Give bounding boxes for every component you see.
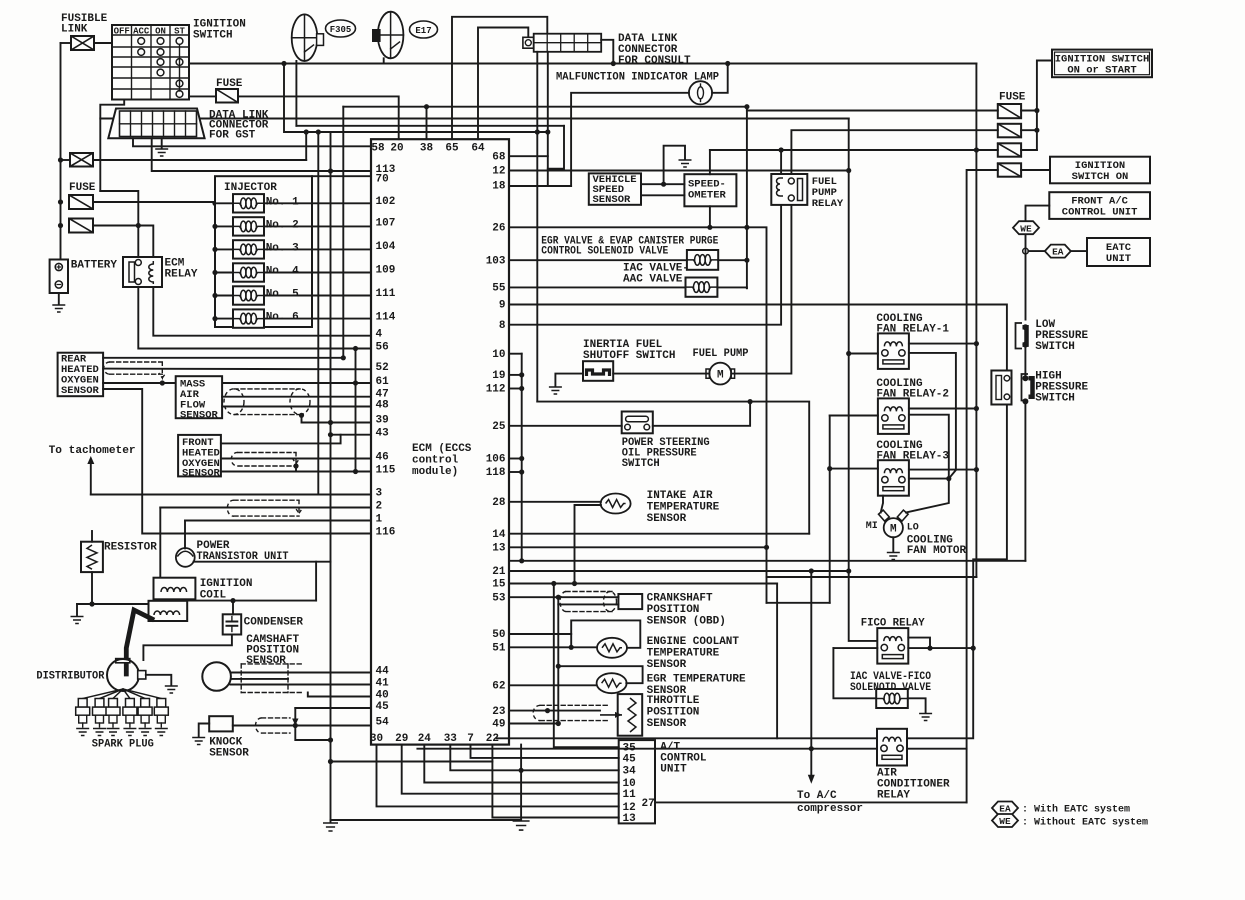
- ECM relay contact bar: [129, 262, 135, 282]
- label FRONT HEATED OXYGEN SENSOR: [182, 437, 221, 480]
- svg-text:No. 5: No. 5: [266, 289, 299, 301]
- ground distributor: [165, 686, 178, 693]
- wire bus x=355.5 vertical: [355, 349, 357, 472]
- front heated oxygen sensor box: [178, 435, 221, 477]
- ECM right pin 55 label: [492, 283, 506, 295]
- node pin50/51 junction: [569, 645, 574, 650]
- data link connector for CONSULT body: [534, 34, 602, 52]
- wire ECM pin 43 line: [331, 434, 372, 436]
- wire speedometer bottom to pin 26 line: [709, 206, 711, 227]
- svg-text:FUSE: FUSE: [999, 92, 1026, 104]
- node pin23 tap: [545, 708, 550, 713]
- svg-text:SENSOR: SENSOR: [647, 513, 687, 525]
- svg-text:39: 39: [376, 414, 389, 426]
- intake air temperature sensor: [601, 494, 631, 514]
- fuel pump relay bar: [798, 179, 803, 201]
- throttle sensor wiper arrow: [600, 712, 622, 718]
- label To tachometer: [49, 445, 136, 457]
- svg-text:RELAY: RELAY: [812, 198, 844, 210]
- node injector rail 6: [212, 316, 217, 321]
- fuel pump relay box: [771, 174, 807, 205]
- ground F305 symbol: [292, 14, 324, 61]
- label IAC VALVE-FICO SOLENOID VALVE: [850, 671, 931, 694]
- wire fuse A left: [747, 110, 998, 112]
- svg-text:RESISTOR: RESISTOR: [104, 542, 157, 554]
- wire rear O2 wire 2 to pin 52: [103, 368, 371, 371]
- MAF shield: [224, 389, 310, 415]
- node pin49 / ground bus: [556, 721, 561, 726]
- svg-text:64: 64: [471, 143, 485, 155]
- wire camshaft sensor middle wire: [232, 678, 288, 680]
- svg-text:SPARK PLUG: SPARK PLUG: [92, 739, 154, 751]
- wire ECM pin 28 to intake air sensor: [509, 501, 601, 503]
- node knock/shield: [293, 723, 298, 728]
- svg-text:ON or START: ON or START: [1067, 65, 1136, 77]
- label IGNITION SWITCH ON: [1072, 160, 1129, 183]
- svg-text:12: 12: [492, 166, 505, 178]
- svg-text:RELAY: RELAY: [165, 269, 198, 281]
- svg-text:10: 10: [492, 349, 505, 361]
- ECM bottom pin 22: [486, 733, 499, 745]
- wire ECM pin 14 line: [509, 533, 809, 535]
- ECM right pin 12 label: [492, 166, 505, 178]
- node intake drop / pin15: [572, 581, 577, 586]
- wire sensor ground bus x=558.3: [557, 604, 559, 723]
- wire fuse B left to fuel pump relay: [791, 130, 997, 174]
- wire y=401.6 line: [537, 402, 809, 534]
- wire fuse1 to injector rail: [93, 201, 215, 203]
- svg-text:ECM (ECCS: ECM (ECCS: [412, 443, 472, 455]
- ECM left pin 54 label: [376, 716, 390, 728]
- wire relay3 left: [830, 468, 878, 470]
- svg-text:13: 13: [492, 543, 506, 555]
- wire ground link y=820: [331, 819, 522, 821]
- label IGNITION COIL: [200, 578, 253, 602]
- svg-text:RELAY: RELAY: [877, 790, 910, 802]
- ECM left pin 44 label: [376, 665, 390, 677]
- wire MAF wire 2 to pin 48: [222, 406, 371, 408]
- wire injector 3 left pin: [215, 248, 233, 250]
- wire ECM pin 49 line: [509, 723, 558, 725]
- injector No. 3: [233, 240, 264, 258]
- wire ECM pin 7 to A/T 45: [471, 745, 619, 758]
- node fuseC / FP relay coil: [779, 147, 784, 152]
- pin2 shield: [227, 500, 302, 516]
- wire inertia switch ground: [555, 374, 583, 386]
- wire relay2 left: [830, 415, 878, 417]
- node pin53 tap: [556, 595, 561, 600]
- label IAC VALVE- AAC VALVE: [623, 263, 689, 286]
- low pressure switch symbol: [1016, 323, 1029, 349]
- ECM left pin 3 label: [376, 487, 383, 499]
- ECM relay box: [123, 257, 162, 287]
- wire ACC line drop at x=284: [284, 64, 332, 133]
- node fuse2 junction: [136, 223, 141, 228]
- wire staircase x=564: [548, 126, 564, 169]
- label DATA LINK CONNECTOR FOR GST: [209, 110, 269, 142]
- label HIGH PRESSURE SWITCH: [1035, 371, 1088, 405]
- wire relay2 coil right: [909, 408, 977, 410]
- ECM bottom pin 24: [418, 733, 432, 745]
- wire high pressure switch left drop: [908, 405, 1007, 739]
- wire y=118.5 bus: [100, 118, 848, 120]
- label FICO RELAY: [861, 618, 925, 630]
- svg-text:1: 1: [376, 513, 383, 525]
- ECM left pin 41 label: [376, 677, 390, 689]
- svg-text:SENSOR: SENSOR: [209, 748, 249, 760]
- power transistor unit: [176, 548, 195, 567]
- wire crankshaft sensor lower wire: [558, 597, 618, 604]
- wire ECM pin 19 line: [509, 374, 522, 376]
- svg-text:FOR CONSULT: FOR CONSULT: [618, 55, 691, 67]
- wire injector 3 to ECM pin 104: [264, 248, 371, 250]
- label ENGINE COOLANT TEMPERATURE SENSOR: [647, 636, 740, 671]
- fusible link FL1: [71, 36, 94, 50]
- wire FICO left line: [833, 647, 877, 649]
- FICO relay: [877, 628, 908, 664]
- label VEHICLE SPEED SENSOR: [593, 174, 637, 206]
- ECM top pin 58: [371, 143, 385, 155]
- svg-text:SENSOR: SENSOR: [180, 410, 219, 422]
- svg-text:45: 45: [623, 753, 637, 765]
- label SPARK PLUG: [92, 739, 154, 751]
- wire VSS ground: [664, 146, 685, 185]
- svg-text:2: 2: [376, 500, 383, 512]
- wire ECM pin 15 line: [509, 583, 777, 585]
- node HP drop / FICO line: [971, 646, 976, 651]
- ECM right pin 51 label: [492, 643, 506, 655]
- ECM right pin 18 label: [492, 181, 506, 193]
- A/T pin 13 label: [623, 813, 637, 825]
- wire E17 drop to ACC line: [383, 58, 385, 63]
- wire rear O2 wire 4: [103, 389, 371, 534]
- svg-text:40: 40: [376, 689, 389, 701]
- A/T pin 27 label: [642, 798, 655, 810]
- resistor box: [81, 542, 103, 572]
- node bus343/rear-O2: [341, 355, 346, 360]
- cooling fan relay-3: [878, 460, 909, 496]
- wire ECM pin 68 line: [509, 155, 548, 157]
- svg-text:52: 52: [376, 362, 389, 374]
- symbol EA (with EATC): [1045, 245, 1071, 258]
- svg-text:48: 48: [376, 399, 390, 411]
- ECM left pin 61 label: [376, 376, 390, 388]
- ECM right pin 50 label: [492, 629, 505, 641]
- svg-text:10: 10: [623, 778, 636, 790]
- wire intake air sensor left drop: [575, 505, 601, 584]
- svg-text:46: 46: [376, 451, 389, 463]
- ignition coil secondary winding: [154, 611, 180, 615]
- ECM left pin 115 label: [376, 464, 396, 476]
- wire fuse D left drop: [967, 170, 998, 802]
- high pressure switch contact: [1022, 374, 1033, 404]
- label CONDENSER: [244, 617, 304, 629]
- fuse left-2: [69, 219, 93, 233]
- wire GST pin to ECM pin 113: [152, 138, 371, 171]
- node pin56 bus junction: [353, 346, 358, 351]
- ground ignition coil: [71, 604, 84, 624]
- wire IAC valve right: [717, 286, 747, 289]
- ECM left pin 111 label: [376, 288, 396, 300]
- svg-text:43: 43: [376, 427, 390, 439]
- wire resistor top stub: [91, 531, 93, 542]
- wire ECM pin 21 line: [509, 570, 849, 572]
- node pin118 / bus: [519, 469, 524, 474]
- wire pin 1 to power transistor: [184, 521, 186, 549]
- svg-text:116: 116: [376, 526, 396, 538]
- svg-text:INJECTOR: INJECTOR: [224, 182, 277, 194]
- wire bus x=306.2 vertical: [305, 132, 307, 160]
- distributor cap: [116, 659, 130, 663]
- svg-text:No. 1: No. 1: [266, 196, 299, 208]
- svg-text:58: 58: [371, 143, 385, 155]
- svg-text:compressor: compressor: [797, 803, 863, 815]
- node left rail / fuse2: [58, 223, 63, 228]
- ECM right pin 68 label: [492, 151, 506, 163]
- wire high tension lead: [126, 610, 152, 674]
- wire front O2 shield drain: [295, 466, 297, 472]
- wire ECM pin 50 line: [509, 634, 571, 647]
- svg-text:CONTROL UNIT: CONTROL UNIT: [1062, 207, 1138, 219]
- label injector No. 5: [266, 289, 299, 301]
- ignition switch header ACC: [133, 27, 150, 37]
- wire ECM pin 2 line: [160, 507, 371, 509]
- svg-text:WE: WE: [999, 816, 1011, 827]
- svg-text:24: 24: [418, 733, 432, 745]
- svg-text:33: 33: [444, 733, 458, 745]
- wire left rail to FL1: [61, 42, 72, 44]
- ECM label: [412, 443, 472, 478]
- injector No. 6: [233, 309, 264, 327]
- label THROTTLE POSITION SENSOR: [647, 695, 700, 730]
- svg-text:14: 14: [492, 529, 506, 541]
- svg-text:control: control: [412, 455, 459, 467]
- ECM left pin 39 label: [376, 414, 389, 426]
- svg-text:MI: MI: [866, 521, 878, 532]
- label FUSE (ignition): [216, 78, 243, 90]
- wire FP relay contact bottom to fuel pump: [731, 205, 791, 374]
- cooling fan relay-2: [878, 398, 909, 434]
- cooling fan motor: [879, 510, 909, 537]
- svg-text:44: 44: [376, 665, 390, 677]
- label IGNITION SWITCH ON or START: [1055, 54, 1150, 77]
- wire ECM pin 29 to A/T 11: [402, 745, 619, 794]
- svg-text:56: 56: [376, 341, 389, 353]
- label COOLING FAN RELAY-2: [876, 378, 949, 401]
- knock sensor box: [209, 716, 233, 731]
- label injector No. 2: [266, 219, 299, 231]
- svg-text:M: M: [717, 370, 724, 382]
- node fuseA-drop / EGR solenoid: [744, 258, 749, 263]
- svg-text:3: 3: [376, 487, 383, 499]
- wire fan motor ground: [892, 537, 894, 551]
- label FUSE (right): [999, 92, 1026, 104]
- ground ECM case: [513, 821, 530, 830]
- wire MIL right to ACC line: [712, 64, 728, 93]
- vehicle speed sensor box: [589, 173, 641, 204]
- svg-text:21: 21: [492, 566, 506, 578]
- wire condenser bottom to distributor cap: [143, 635, 232, 661]
- wire ECM pin 10 line: [509, 353, 522, 355]
- wire FL2 right to bus: [93, 159, 306, 161]
- svg-text:51: 51: [492, 643, 506, 655]
- ECM (ECCS control module) box: [371, 139, 509, 744]
- label LOW PRESSURE SWITCH: [1035, 319, 1088, 353]
- wire pin 2 to ignition coil: [159, 508, 161, 579]
- label SPEED-OMETER: [688, 179, 727, 202]
- wire ECM pin 53 to crankshaft sensor: [509, 596, 618, 598]
- ECM right pin 53 label: [492, 592, 506, 604]
- wire high pressure switch right drop: [1024, 405, 1026, 561]
- label ECM RELAY: [165, 258, 198, 281]
- svg-text:8: 8: [499, 320, 506, 332]
- wire AC relay coil left line: [497, 737, 877, 739]
- fuel pump relay coil: [777, 178, 784, 196]
- svg-text:SWITCH: SWITCH: [1035, 341, 1075, 353]
- svg-text:114: 114: [376, 311, 396, 323]
- label RESISTOR: [104, 542, 157, 554]
- ground battery: [52, 305, 65, 312]
- wire ECM pin 64 over-top to consult clip: [478, 28, 528, 140]
- wire bundle y=132 extension: [332, 131, 548, 133]
- wire ECM pin 18 line: [509, 185, 571, 187]
- wire injector 5 left pin: [215, 295, 233, 297]
- svg-text:SENSOR: SENSOR: [182, 468, 221, 480]
- wire condenser top: [232, 601, 234, 615]
- label INJECTOR: [224, 182, 277, 194]
- ground speedometer: [679, 160, 692, 167]
- svg-text:11: 11: [623, 789, 637, 801]
- wire fuse C left to speedometer: [710, 149, 998, 151]
- A/T control unit box: [619, 740, 655, 823]
- node relay right contact junction: [946, 476, 951, 481]
- ECM right pin 28 label: [492, 497, 506, 509]
- wire ECM pin 40 line: [308, 693, 371, 697]
- wire ECM pin 33 to A/T 34: [450, 745, 618, 771]
- svg-text:30: 30: [370, 733, 383, 745]
- node pin113 bus junction: [328, 168, 333, 173]
- svg-text:61: 61: [376, 376, 390, 388]
- injector No. 4: [233, 263, 264, 281]
- ECM right pin 62 label: [492, 681, 505, 693]
- svg-text:70: 70: [376, 174, 389, 186]
- mass air flow sensor box: [176, 376, 222, 418]
- data link connector for GST body: [108, 109, 204, 139]
- data link connector for CONSULT clip: [523, 37, 534, 48]
- svg-text:26: 26: [492, 223, 505, 235]
- node bus355/pin115: [353, 469, 358, 474]
- label E17: [410, 21, 438, 38]
- ECM right pin 103 label: [486, 255, 506, 267]
- svg-text:FUSE: FUSE: [69, 182, 96, 194]
- label FUSE (left): [69, 182, 96, 194]
- wire fuse B right: [1021, 129, 1037, 131]
- wire MAF shield drain to pin 39: [302, 415, 372, 422]
- svg-text:SWITCH: SWITCH: [193, 30, 233, 42]
- condenser box: [223, 614, 242, 634]
- node fuse A right junction: [1034, 108, 1039, 113]
- node pin21 / AC compressor drop: [809, 568, 814, 573]
- wire ECM pin 55 to IAC valve: [509, 286, 686, 288]
- node relay3 left junction: [827, 466, 832, 471]
- label DISTRIBUTOR: [36, 671, 104, 683]
- battery terminals: [55, 263, 62, 288]
- ECM bottom pin 29: [395, 733, 408, 745]
- wire ignition table bottom jog: [100, 100, 124, 192]
- ignition coil primary winding: [161, 587, 187, 592]
- ECM relay coil: [149, 261, 153, 284]
- node bus330/pin39 drain: [328, 420, 333, 425]
- wire fuse ABC vertical to IGN box: [1037, 61, 1052, 151]
- ECM left pin 47 label: [376, 388, 389, 400]
- svg-text:50: 50: [492, 629, 505, 641]
- wire bus 829.7 vertical: [829, 416, 831, 603]
- fuse ignition ST: [216, 89, 238, 103]
- label MALFUNCTION INDICATOR LAMP: [556, 72, 719, 84]
- IAC valve - AAC valve solenoid: [686, 278, 718, 297]
- inertia fuel shutoff switch box: [583, 361, 613, 381]
- svg-text:F305: F305: [330, 25, 352, 35]
- svg-text:SENSOR: SENSOR: [647, 659, 687, 671]
- rear heated oxygen sensor box: [58, 353, 104, 397]
- front O2 shield: [231, 452, 299, 466]
- throttle position sensor body: [618, 694, 643, 736]
- wire relay3 bottom to fan motor: [881, 496, 883, 513]
- symbol EA legend: [992, 802, 1018, 815]
- svg-text:25: 25: [492, 421, 506, 433]
- svg-text:No. 3: No. 3: [266, 242, 299, 254]
- wire ECM pin 26 line: [509, 226, 747, 228]
- wire fuse C right: [1021, 149, 1037, 151]
- label KNOCK SENSOR: [209, 737, 249, 760]
- node fuseC / ACC drop: [974, 147, 979, 152]
- svg-text:POSITION: POSITION: [647, 604, 700, 616]
- wire camshaft sensor to ECM pin 44: [231, 672, 371, 674]
- A/T pin 12 label: [623, 802, 636, 814]
- ECM top pin 64: [471, 143, 485, 155]
- svg-text:EGR TEMPERATURE: EGR TEMPERATURE: [647, 674, 746, 686]
- fuse right-A: [998, 104, 1021, 118]
- wire FL2 left: [61, 159, 71, 161]
- svg-text:SWITCH: SWITCH: [1035, 393, 1075, 405]
- wire FP relay coil bottom to ECM pin 8: [509, 205, 781, 325]
- wire pin 26 jog down: [747, 227, 767, 603]
- svg-text:No. 2: No. 2: [266, 219, 299, 231]
- node left rail / FL2: [58, 157, 63, 162]
- label To A/C compressor: [797, 790, 863, 815]
- svg-text:BATTERY: BATTERY: [71, 260, 118, 272]
- svg-text:M: M: [890, 524, 897, 536]
- wire IAC-FICO right to ground: [908, 698, 926, 712]
- node PS/401.6 junction: [748, 399, 753, 404]
- wire fuse A drop: [746, 107, 748, 289]
- battery box: [50, 260, 68, 294]
- ECM left pin 46 label: [376, 451, 389, 463]
- ECM left pin 70 label: [376, 174, 389, 186]
- wire A/T 27 line: [655, 801, 967, 803]
- symbol WE legend: [992, 814, 1018, 827]
- label POWER STEERING OIL PRESSURE SWITCH: [622, 437, 710, 470]
- svg-text:No. 6: No. 6: [266, 312, 299, 324]
- label injector No. 3: [266, 242, 299, 254]
- ECM right pin 23 label: [492, 706, 506, 718]
- svg-text:DISTRIBUTOR: DISTRIBUTOR: [36, 671, 104, 683]
- node case ground / 770.3: [519, 768, 524, 773]
- ECM right pin 14 label: [492, 529, 506, 541]
- svg-text:55: 55: [492, 283, 506, 295]
- speedometer box: [684, 174, 736, 206]
- label injector No. 1: [266, 196, 299, 208]
